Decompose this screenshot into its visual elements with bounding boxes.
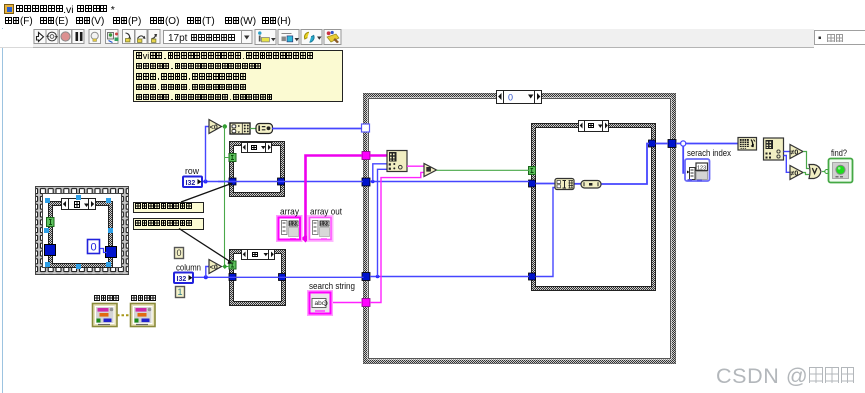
less than 0? icon bottom — [209, 260, 222, 274]
window left edge border — [2, 0, 3, 393]
wire search1d to big case — [272, 128, 362, 130]
not equal 0 icon top — [790, 145, 803, 159]
serach index indicator — [685, 159, 710, 181]
row control — [183, 177, 202, 188]
svg-text:search string: search string — [309, 281, 355, 291]
index array icon (2D) — [387, 151, 407, 172]
svg-text:array: array — [280, 207, 299, 217]
select icon — [230, 123, 250, 134]
VI description comment box — [133, 50, 343, 102]
outer case pass-through tunnel — [362, 124, 370, 132]
not equal 0 icon bottom — [790, 166, 803, 180]
numeric constant 0 in seq case — [88, 240, 100, 254]
lower case left blue tunnel — [229, 274, 236, 281]
svg-text:array out: array out — [310, 207, 342, 217]
lower case selector jia(false) — [242, 250, 275, 260]
error out label — [131, 294, 156, 304]
wire search string to big case — [331, 302, 362, 304]
green wire select to search1d — [250, 128, 256, 130]
wire element out to equal — [407, 165, 424, 167]
wires inside inner case — [536, 183, 556, 185]
label arrow 1 — [181, 182, 233, 202]
inner case left blue tunnel column — [529, 273, 536, 280]
inner case right blue tunnel result — [649, 140, 656, 147]
big outer case structure — [364, 94, 676, 364]
flat sequence structure frame — [36, 187, 129, 275]
lower case selector tunnel green — [229, 261, 236, 269]
wire row up to less-than-0 — [206, 127, 210, 182]
svg-text:column: column — [176, 263, 201, 273]
upper case selector jia(false) — [242, 143, 272, 153]
wire search string inside — [370, 172, 424, 302]
wire array to array out — [301, 237, 309, 240]
constant 0 — [175, 248, 184, 259]
reshape array icon — [738, 138, 757, 151]
wires inside big case: magenta array to index icon — [370, 154, 387, 157]
error wire dashed — [117, 314, 131, 316]
inner case structure (zhen/true) — [532, 124, 656, 291]
wire equal out green — [437, 169, 530, 171]
svg-text:I32: I32 — [177, 276, 187, 283]
less than 0? icon top — [209, 120, 222, 134]
wire row inside — [370, 181, 529, 183]
wire column to less-than-0 — [206, 267, 209, 278]
search box — [814, 30, 865, 45]
svg-text:≠0: ≠0 — [791, 150, 799, 157]
wire magenta array up and right — [306, 156, 363, 239]
array control — [278, 217, 302, 241]
label arrow 2 — [179, 229, 233, 264]
upper case left blue tunnel — [229, 178, 236, 185]
outer case blue tunnel row — [362, 178, 370, 186]
svg-text:0: 0 — [176, 248, 181, 258]
array out indicator — [309, 217, 333, 241]
svg-text:<0: <0 — [210, 265, 218, 272]
constant 1 — [176, 287, 185, 298]
open junction circle — [681, 141, 686, 146]
outer case magenta tunnel search string — [362, 299, 370, 307]
svg-text:serach index: serach index — [687, 148, 731, 158]
svg-text:find?: find? — [831, 148, 847, 158]
title bar — [0, 0, 865, 18]
svg-text:row: row — [185, 166, 199, 176]
toolbar strip — [33, 29, 814, 48]
svg-text:0: 0 — [508, 93, 513, 103]
search string control — [309, 292, 332, 315]
wire constant to tunnel — [100, 249, 107, 253]
magenta junction diamond — [302, 235, 310, 243]
watermark CSDN — [716, 364, 856, 389]
selector char seq-case true — [74, 201, 81, 212]
selector char inner true — [588, 122, 594, 131]
wire row crossing patch — [218, 181, 236, 183]
svg-text:0: 0 — [90, 242, 96, 254]
menu bar — [0, 15, 865, 28]
selection handles on case — [44, 195, 113, 269]
wire column junction — [204, 275, 208, 279]
case selector label zhen(true) — [62, 199, 96, 210]
svg-text:1: 1 — [177, 287, 182, 297]
outer case blue tunnel column — [362, 273, 370, 281]
find? indicator — [829, 159, 853, 183]
svg-text:<0: <0 — [210, 125, 218, 132]
wire column inside — [370, 276, 529, 278]
svg-text:abc: abc — [315, 300, 326, 307]
svg-text:123: 123 — [289, 222, 298, 228]
upper case right blue tunnel — [278, 178, 285, 185]
error in label — [94, 294, 119, 304]
svg-text:123: 123 — [697, 165, 706, 171]
case structure upper (jia/false) — [230, 142, 285, 197]
search/index pill icon inner — [581, 181, 601, 189]
wire row horizontal — [202, 181, 363, 183]
selector terminal tunnel (green) on seq case — [47, 218, 55, 227]
equal? icon — [424, 164, 437, 177]
svg-text:I32: I32 — [186, 180, 196, 187]
or icon — [809, 165, 821, 179]
title text — [16, 4, 115, 16]
error input cluster — [93, 304, 118, 327]
error output cluster — [131, 304, 156, 327]
wire down to serach index — [683, 146, 686, 173]
wire out of big case — [676, 143, 738, 145]
replace array subset icon — [555, 179, 574, 190]
inner case left blue tunnel row — [529, 180, 536, 187]
free label 1 — [133, 202, 204, 214]
wire inner tunnel to outer tunnel — [656, 143, 669, 145]
inner case green selector tunnel — [529, 167, 536, 175]
search 1D array icon — [256, 124, 273, 134]
inner case selector zhen(true) — [579, 121, 609, 132]
svg-text:≠0: ≠0 — [791, 171, 799, 178]
column control — [174, 273, 193, 284]
case structure (true) inside sequence — [49, 202, 113, 268]
lower case right blue tunnel — [279, 274, 286, 281]
selector char upper false — [251, 144, 257, 153]
svg-text:123: 123 — [320, 222, 329, 228]
wires to compare triangles — [784, 151, 791, 153]
index array icon right — [764, 138, 784, 160]
outer case magenta tunnel array — [362, 152, 370, 160]
blue tunnel left on seq case — [45, 245, 56, 256]
VI window icon — [4, 4, 14, 14]
wire or to find — [822, 171, 829, 173]
free label 2 — [133, 218, 204, 230]
case structure lower (jia/false) — [230, 250, 286, 306]
green diamond junction lower — [222, 264, 227, 269]
selector char lower false — [252, 251, 258, 260]
green vertical wire — [225, 127, 230, 267]
outer case right tunnel — [668, 140, 676, 148]
upper case selector tunnel green — [229, 154, 236, 162]
big case selector 0 — [497, 91, 542, 104]
blue tunnel right on seq case — [106, 247, 117, 258]
green wires to or — [803, 152, 809, 169]
green junction dot — [223, 124, 227, 128]
wire column horizontal — [194, 276, 364, 278]
wire row junction — [204, 180, 208, 184]
